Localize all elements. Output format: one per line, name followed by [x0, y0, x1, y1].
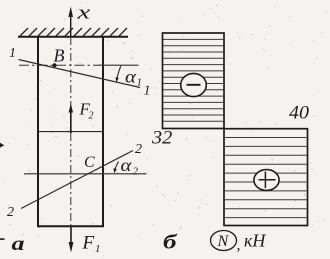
value 32: [151, 128, 173, 148]
force F1 arrow: [70, 227, 72, 245]
N diagram: positive rectangle: [224, 129, 308, 226]
horizontal line through C: [24, 173, 147, 175]
x axis label: [76, 2, 90, 23]
svg-text:N: N: [217, 233, 230, 250]
section line 1-1 inclined: [19, 60, 141, 88]
svg-text:б: б: [163, 232, 178, 254]
svg-text:а: а: [12, 233, 25, 255]
ceiling line: [18, 36, 128, 38]
angle alpha1 arc: [117, 66, 121, 80]
svg-text:40: 40: [289, 103, 309, 123]
left margin dash: [0, 238, 5, 240]
bar left edge: [37, 36, 39, 227]
figure label a: [12, 233, 25, 255]
ceiling hatching: [20, 28, 127, 36]
negative rect hatching: [163, 39, 224, 121]
svg-text:32: 32: [151, 128, 173, 148]
svg-text:α: α: [125, 68, 137, 87]
figure label b: [163, 232, 178, 254]
horizontal dash-dot line through B: [19, 64, 97, 66]
svg-text:2: 2: [89, 111, 94, 122]
N diagram: negative rectangle: [163, 33, 225, 129]
svg-text:1: 1: [9, 46, 16, 61]
value 40: [289, 103, 309, 123]
force F2 arrow: [70, 107, 72, 132]
plus sign circle: [254, 170, 279, 191]
svg-text:1: 1: [144, 84, 151, 99]
svg-text:C: C: [84, 154, 95, 171]
svg-text:1: 1: [95, 243, 101, 255]
svg-text:,: ,: [237, 237, 241, 254]
svg-text:2: 2: [135, 142, 142, 157]
svg-text:x: x: [76, 2, 90, 23]
svg-text:F: F: [82, 233, 95, 254]
minus sign circle: [181, 73, 207, 96]
angle alpha2 arc: [115, 162, 119, 171]
section line at F2: [38, 131, 103, 133]
alpha2 label: [121, 156, 133, 175]
svg-text:1: 1: [137, 77, 143, 89]
N legend circle: [211, 231, 237, 251]
section line 2-2 inclined: [21, 151, 133, 209]
svg-text:α: α: [121, 156, 133, 175]
svg-text:кН: кН: [244, 231, 266, 251]
positive rect hatching: [225, 138, 307, 218]
bar right edge: [102, 36, 104, 227]
svg-text:2: 2: [133, 166, 139, 178]
node B dot: [53, 63, 57, 67]
x axis: [70, 10, 72, 37]
bar axis dash-dot line: [70, 37, 72, 226]
junction dot at section line: [69, 130, 72, 133]
svg-text:B: B: [54, 46, 65, 66]
left margin arrow mark: [0, 143, 4, 148]
svg-text:2: 2: [7, 205, 14, 220]
alpha1 label: [125, 68, 137, 87]
bar bottom edge: [37, 225, 104, 227]
